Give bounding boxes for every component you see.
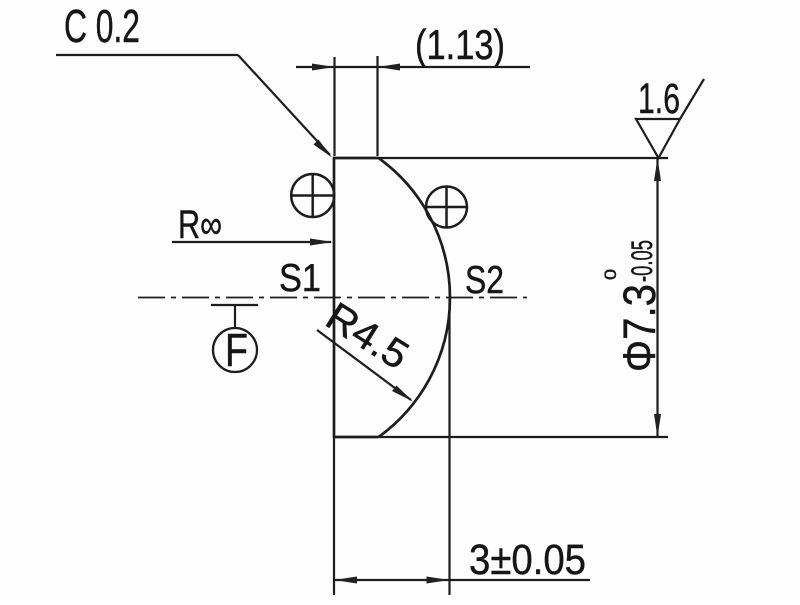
svg-text:0: 0 (601, 269, 620, 280)
svg-text:-0.05: -0.05 (626, 240, 659, 282)
extension line x=334 below lens for 3±0.05 (333, 437, 335, 595)
arrow right at 3±0.05 (427, 577, 450, 584)
lens bottom edge (333, 436, 379, 439)
svg-text:(1.13): (1.13) (415, 21, 505, 68)
top extension line for diameter (379, 157, 668, 159)
svg-text:S1: S1 (279, 257, 321, 300)
extension line x=449.5 (S2 vertex) for 3±0.05 (448, 299, 450, 595)
extension line x=334 above lens for (1.13) (333, 57, 335, 156)
polish mark cross right (426, 186, 468, 228)
svg-text:Φ7.3: Φ7.3 (614, 284, 665, 372)
arrow right of (1.13) pointing left (378, 64, 401, 71)
arrow left at 3±0.05 (334, 577, 357, 584)
datum F bar (211, 304, 258, 306)
leader line C0.2 diagonal (238, 55, 330, 155)
svg-text:1.6: 1.6 (638, 75, 680, 123)
svg-text:S2: S2 (465, 259, 504, 302)
svg-text:C 0.2: C 0.2 (64, 0, 140, 52)
dimension line 3±0.05 (334, 579, 590, 581)
extension line x=377.5 above lens for (1.13) (376, 56, 378, 156)
datum F circle (213, 328, 257, 372)
svg-text:R∞: R∞ (178, 203, 222, 247)
leader line R4.5 (317, 330, 411, 400)
centerline (optical axis) (138, 297, 527, 299)
arrow of R-infinity leader (310, 239, 333, 246)
lens convex surface S2 arc R4.5 (379, 158, 450, 437)
lens top edge (333, 157, 379, 160)
leader line C0.2 horizontal (56, 54, 238, 56)
diameter dimension line (656, 158, 658, 437)
arrow down at diameter bottom (654, 414, 661, 437)
arrow of C0.2 leader (314, 140, 333, 158)
arrow of R4.5 leader (392, 386, 413, 402)
polish mark circle right (S2) (426, 187, 467, 228)
polish mark circle left (S1) (291, 174, 334, 217)
arrow left of (1.13) pointing right (312, 64, 335, 71)
bottom extension line for diameter (379, 436, 668, 438)
lens left flat edge S1 (333, 158, 336, 437)
leader line R-infinity (172, 241, 331, 243)
surface finish triangle 1.6 (636, 119, 680, 158)
svg-text:3±0.05: 3±0.05 (469, 536, 586, 584)
datum F stem (234, 305, 236, 328)
svg-text:F: F (225, 324, 248, 376)
polish mark cross left (291, 174, 336, 219)
arrow up at diameter top (654, 158, 661, 181)
surface finish check stroke (680, 79, 704, 119)
dimension line (1.13) (296, 66, 530, 68)
text diameter 7.3 rotated (601, 240, 665, 372)
